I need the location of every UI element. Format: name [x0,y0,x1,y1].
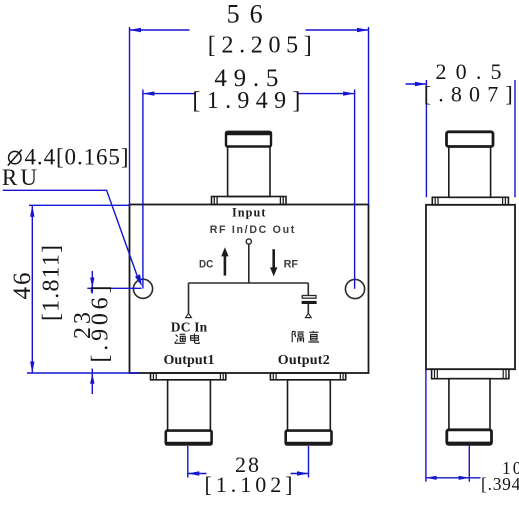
svg-text:[1.102]: [1.102] [205,472,293,497]
dim 20.5 line left outside stub [406,83,427,85]
dim 28 line right stub [291,473,309,475]
dim 28 arrow left [188,471,200,475]
label ge (CJK) [292,332,304,343]
side bottom nut [447,430,492,445]
front body [130,205,369,374]
side bottom nut bottom thick edge [446,442,492,445]
output2 flange notch left [272,373,274,380]
dim 10 arrow right [459,476,470,480]
DC direction arrow [221,247,228,275]
Output2 connector [270,373,345,445]
dim 49.5 line left stub [143,93,196,95]
side body [426,205,515,369]
dim 28 arrow right [297,471,309,475]
side top barrel [449,147,491,198]
dim 49.5 line right stub [298,93,355,95]
output1 nut bottom thick edge [165,442,212,445]
svg-text:RF: RF [284,259,299,271]
capacitor C1 top plate [302,296,316,299]
dim 10 extension line left [425,370,427,482]
wire below capacitor [307,304,309,313]
dim 10 arrow left [426,476,437,480]
side bottom flange [432,369,509,379]
svg-text:RF In/DC Out: RF In/DC Out [210,224,295,236]
output1 flange notch right [219,373,221,380]
side bottom flange notch right [502,369,504,379]
side top flange [432,197,508,205]
output1 flange [151,373,226,380]
side top flange notch left [434,197,436,205]
dim 49.5 extension line right [354,90,356,289]
input connector nut top thick edge [225,132,271,136]
dim 23 extension tick at hole center [87,287,141,289]
side bottom barrel [449,379,490,430]
dim 23 bottom outside arrow [91,369,93,395]
dim 49.5 arrow right [343,91,355,95]
dim 46 line [31,205,33,373]
wire DC branch vertical [188,283,190,313]
svg-text:Output2: Output2 [278,353,330,368]
side bottom flange notch left [434,369,436,379]
dim 10 line [426,477,481,479]
dim 10 extension line right from nut center [468,446,470,482]
dim 46 extension line top [29,204,130,206]
dim 56 line right stub [306,29,369,31]
dim 46 arrow bottom [30,362,34,374]
dim 20.5 arrow left [415,82,427,86]
dim 28 extension line right [308,446,310,478]
svg-text:[1.949]: [1.949] [192,88,300,114]
dim 28 extension line left [187,446,189,478]
svg-text:DC: DC [199,259,213,271]
input connector nut [226,132,271,147]
dim 56 arrow right [357,28,369,32]
output1 nut [166,431,212,445]
dim 20.5 extension line right [514,80,516,197]
dim 49.5 extension line left [142,90,144,289]
label tong (CJK) [175,334,186,343]
input flange notch right [279,197,281,205]
dim 56 extension line right [368,27,370,205]
svg-text:[1.811]: [1.811] [39,245,65,321]
side top flange notch right [502,197,504,205]
terminal DC In [186,313,192,317]
label zhi (CJK) [308,331,319,342]
svg-text:Input: Input [232,206,266,220]
svg-text:[.394]: [.394] [481,474,519,494]
output2 flange notch right [339,373,341,380]
svg-text:Output1: Output1 [163,353,214,368]
wire horizontal bus [189,282,309,284]
dim 56 extension line left [129,27,131,205]
input flange notch left [213,197,215,205]
dim 56 arrow left [130,28,142,32]
mounting hole left [133,279,152,298]
leader arrowhead [135,274,142,286]
dim 49.5 arrow left [143,91,155,95]
svg-text:[2.205]: [2.205] [208,33,312,59]
capacitor C1 bottom plate [302,301,317,304]
output2 nut bottom thick edge [285,442,332,445]
dim 56 line left stub [130,29,190,31]
wire RF branch vertical [307,283,309,296]
input connector flange [212,197,287,205]
svg-text:DC In: DC In [171,320,208,335]
node RF In/DC Out [246,239,251,244]
mounting hole right [345,279,364,298]
dim 46 arrow top [30,205,34,217]
output1 barrel [168,380,211,431]
output1 flange notch left [152,373,154,380]
RF direction arrow [270,249,277,276]
wire input vertical [248,244,250,283]
hole callout diameter symbol [8,150,22,166]
terminal Output2 [305,313,311,317]
input connector barrel [228,147,270,197]
label dian (CJK) [191,334,200,344]
dim 28 line left stub [188,473,207,475]
dim 46 extension line bottom [27,372,140,374]
dim 20.5 extension line left [425,80,427,197]
side top nut [447,132,494,147]
dim 23 top outside arrow [91,271,93,294]
output2 nut [286,431,332,445]
Output1 connector [151,373,226,445]
svg-text:4.4[0.165]: 4.4[0.165] [25,145,129,170]
output2 barrel [288,380,331,431]
output2 flange [270,373,345,380]
leader line for hole callout [3,190,139,279]
